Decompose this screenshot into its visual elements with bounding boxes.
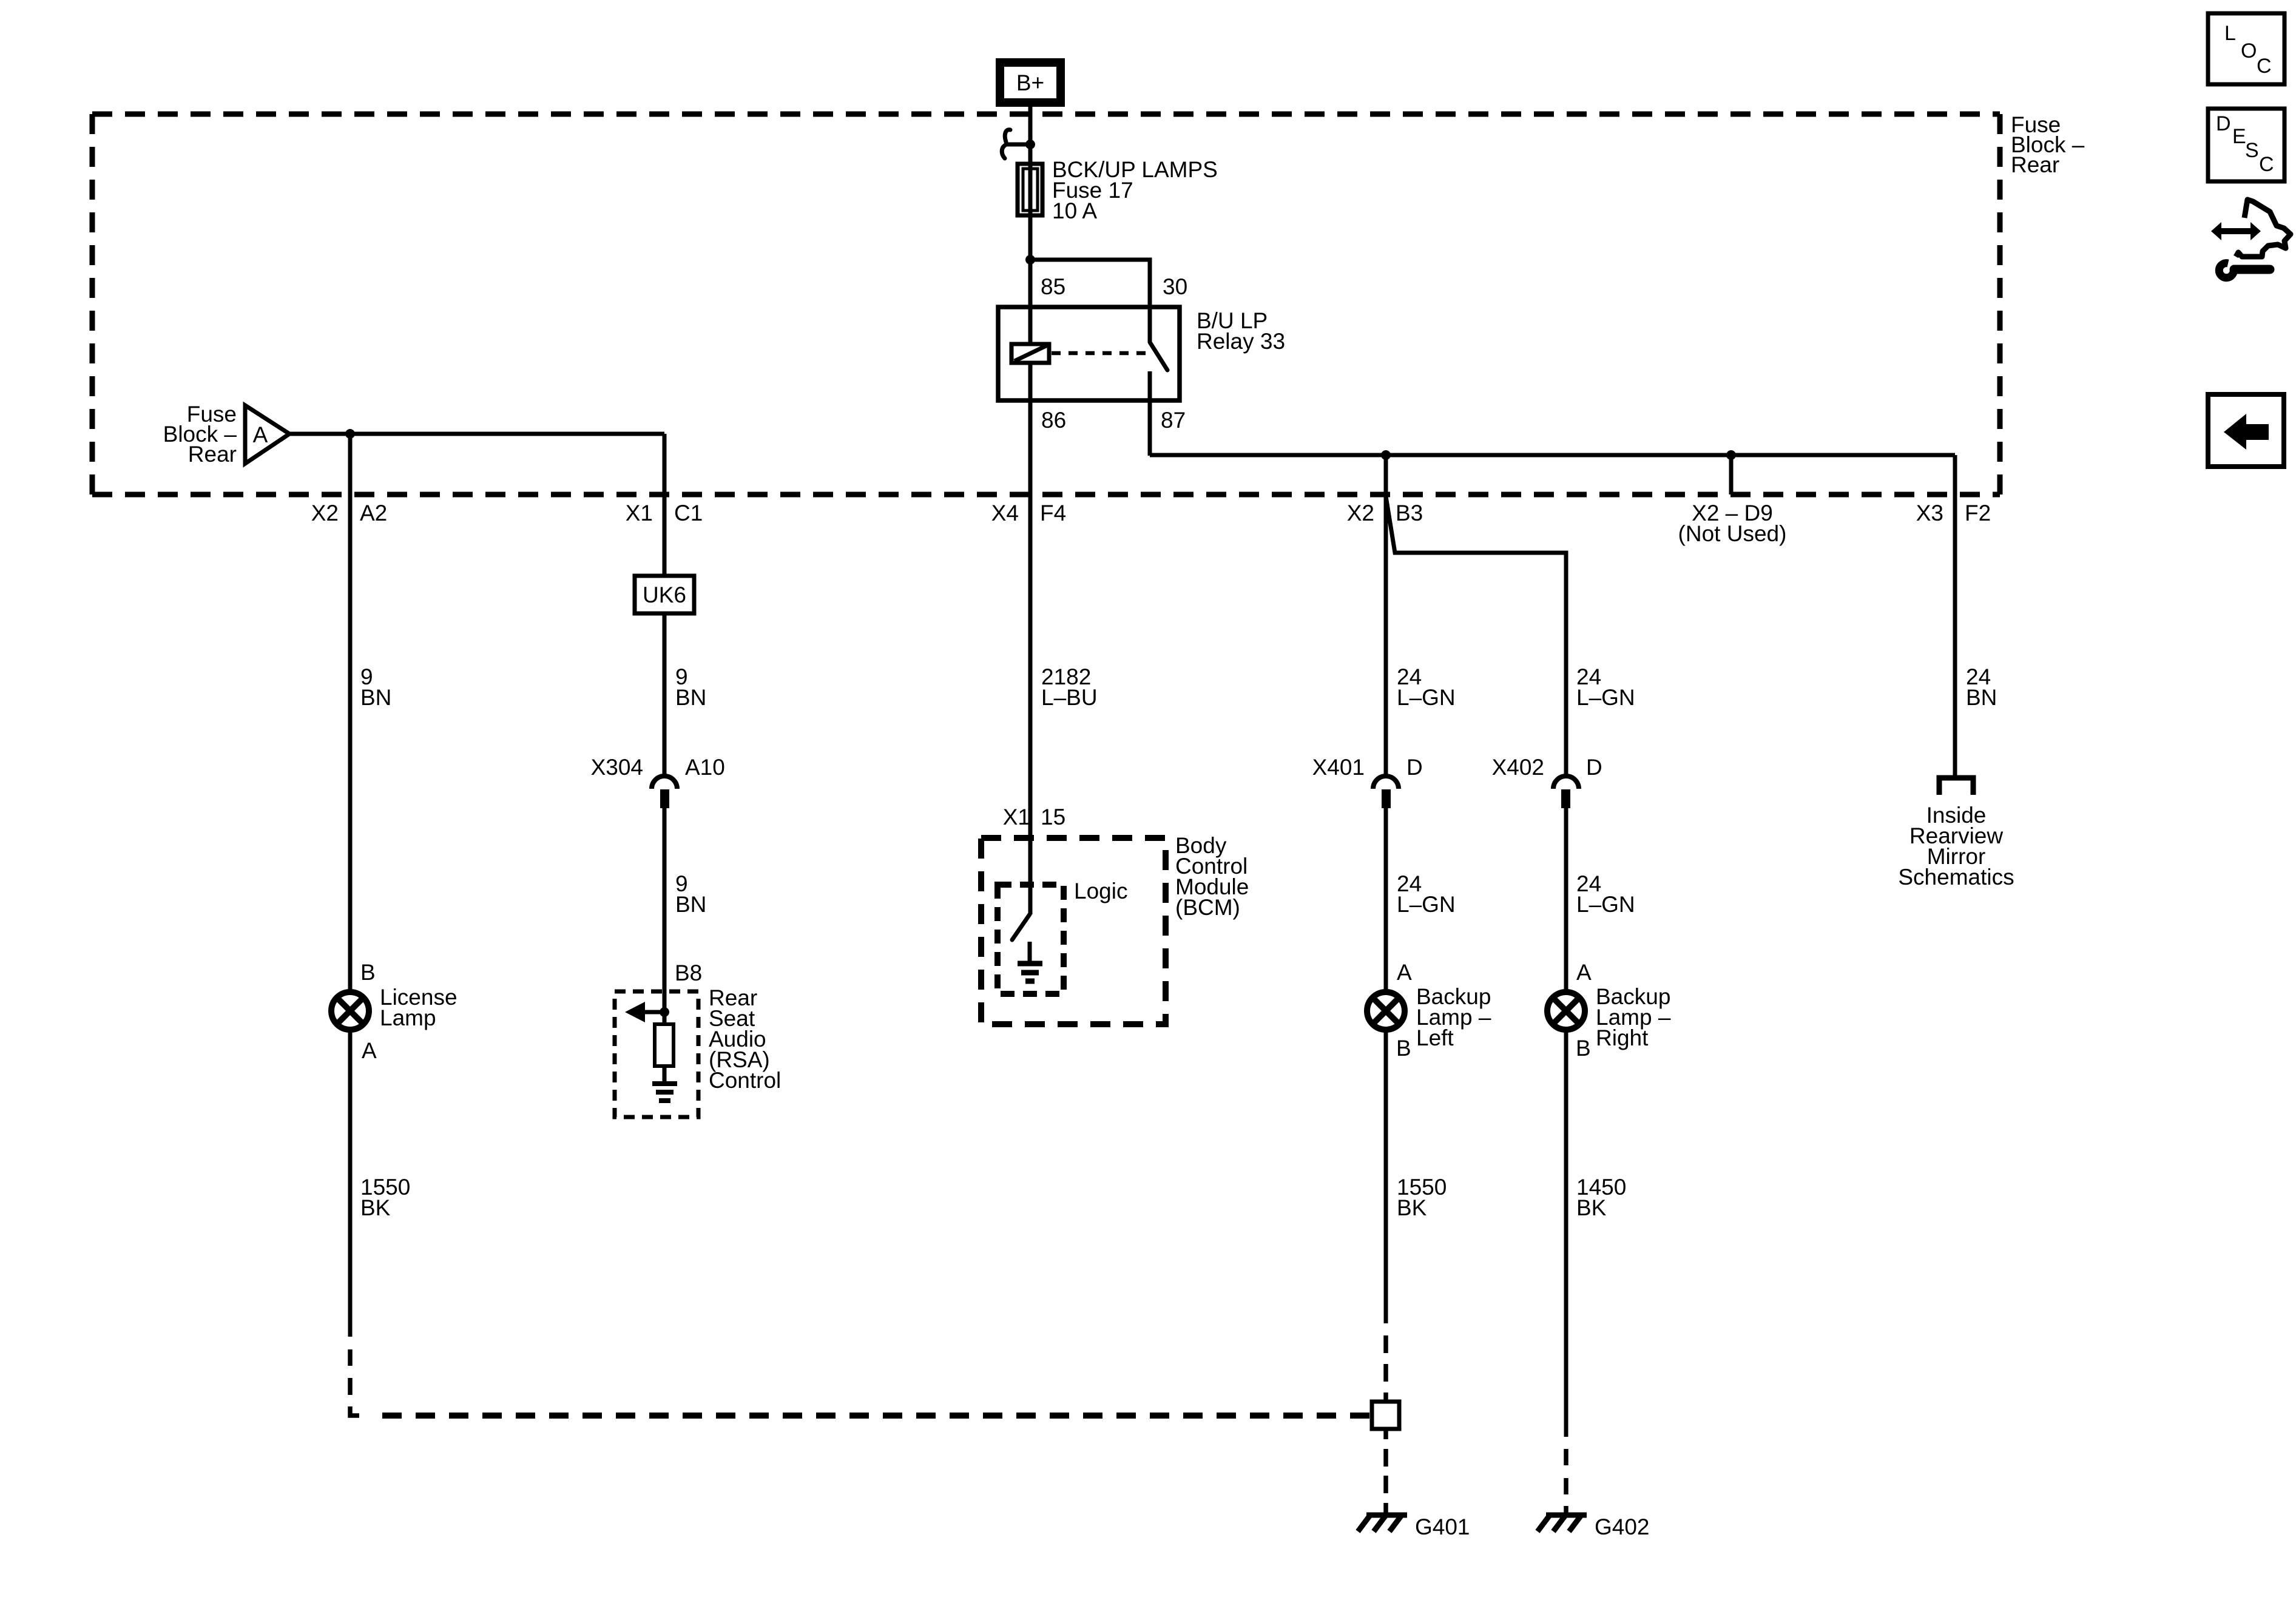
svg-text:X3: X3	[1916, 501, 1943, 525]
svg-text:X402: X402	[1492, 755, 1544, 780]
svg-text:A: A	[1397, 960, 1412, 985]
svg-text:A2: A2	[360, 501, 387, 525]
svg-text:UK6: UK6	[643, 582, 686, 607]
svg-text:O: O	[2241, 39, 2257, 62]
svg-text:Rear: Rear	[2011, 152, 2059, 177]
svg-text:B3: B3	[1396, 501, 1423, 525]
svg-text:G402: G402	[1595, 1514, 1650, 1539]
svg-text:Rear: Rear	[188, 442, 237, 467]
svg-text:87: 87	[1161, 408, 1186, 433]
svg-text:BK: BK	[1576, 1195, 1607, 1220]
svg-text:B: B	[1396, 1036, 1411, 1061]
svg-text:BK: BK	[1397, 1195, 1427, 1220]
svg-text:Logic: Logic	[1074, 879, 1127, 903]
svg-text:Relay 33: Relay 33	[1197, 329, 1285, 354]
svg-text:B8: B8	[675, 960, 702, 985]
svg-text:X304: X304	[591, 755, 643, 780]
svg-text:BN: BN	[675, 892, 706, 917]
svg-text:BN: BN	[675, 685, 706, 710]
svg-text:B: B	[360, 960, 376, 985]
svg-text:(BCM): (BCM)	[1175, 895, 1240, 920]
svg-text:S: S	[2245, 139, 2259, 162]
svg-text:X1: X1	[1003, 805, 1030, 829]
svg-text:L–GN: L–GN	[1397, 685, 1456, 710]
svg-text:G401: G401	[1415, 1514, 1470, 1539]
svg-text:BN: BN	[1966, 685, 1997, 710]
svg-text:BK: BK	[360, 1195, 391, 1220]
svg-text:B+: B+	[1016, 70, 1044, 95]
svg-text:L–BU: L–BU	[1041, 685, 1098, 710]
svg-text:Schematics: Schematics	[1898, 865, 2014, 890]
svg-text:A10: A10	[685, 755, 725, 780]
svg-text:C: C	[2259, 153, 2274, 176]
svg-text:L: L	[2224, 22, 2236, 45]
svg-text:X1: X1	[626, 501, 653, 525]
svg-text:C1: C1	[674, 501, 703, 525]
svg-text:Left: Left	[1416, 1025, 1454, 1050]
svg-text:A: A	[1576, 960, 1592, 985]
svg-text:86: 86	[1041, 408, 1066, 433]
svg-text:D: D	[1406, 755, 1423, 780]
svg-text:A: A	[253, 422, 268, 447]
svg-text:X4: X4	[991, 501, 1019, 525]
svg-text:X2: X2	[1347, 501, 1374, 525]
svg-text:D: D	[2216, 112, 2231, 135]
svg-text:85: 85	[1041, 274, 1065, 299]
svg-text:F4: F4	[1040, 501, 1066, 525]
svg-text:Control: Control	[709, 1068, 781, 1093]
svg-text:10 A: 10 A	[1052, 198, 1097, 223]
svg-text:L–GN: L–GN	[1397, 892, 1456, 917]
svg-text:L–GN: L–GN	[1576, 685, 1635, 710]
svg-text:BN: BN	[360, 685, 391, 710]
svg-text:X401: X401	[1312, 755, 1365, 780]
svg-text:X2: X2	[311, 501, 339, 525]
svg-text:Lamp: Lamp	[380, 1005, 436, 1030]
svg-text:A: A	[362, 1038, 377, 1063]
svg-text:L–GN: L–GN	[1576, 892, 1635, 917]
svg-text:C: C	[2257, 55, 2272, 78]
svg-text:30: 30	[1163, 274, 1187, 299]
svg-text:D: D	[1586, 755, 1602, 780]
svg-text:(Not Used): (Not Used)	[1678, 521, 1787, 546]
svg-text:E: E	[2232, 125, 2246, 148]
svg-text:B: B	[1576, 1036, 1591, 1061]
svg-text:F2: F2	[1965, 501, 1991, 525]
svg-text:Right: Right	[1596, 1025, 1649, 1050]
svg-text:15: 15	[1041, 805, 1065, 829]
